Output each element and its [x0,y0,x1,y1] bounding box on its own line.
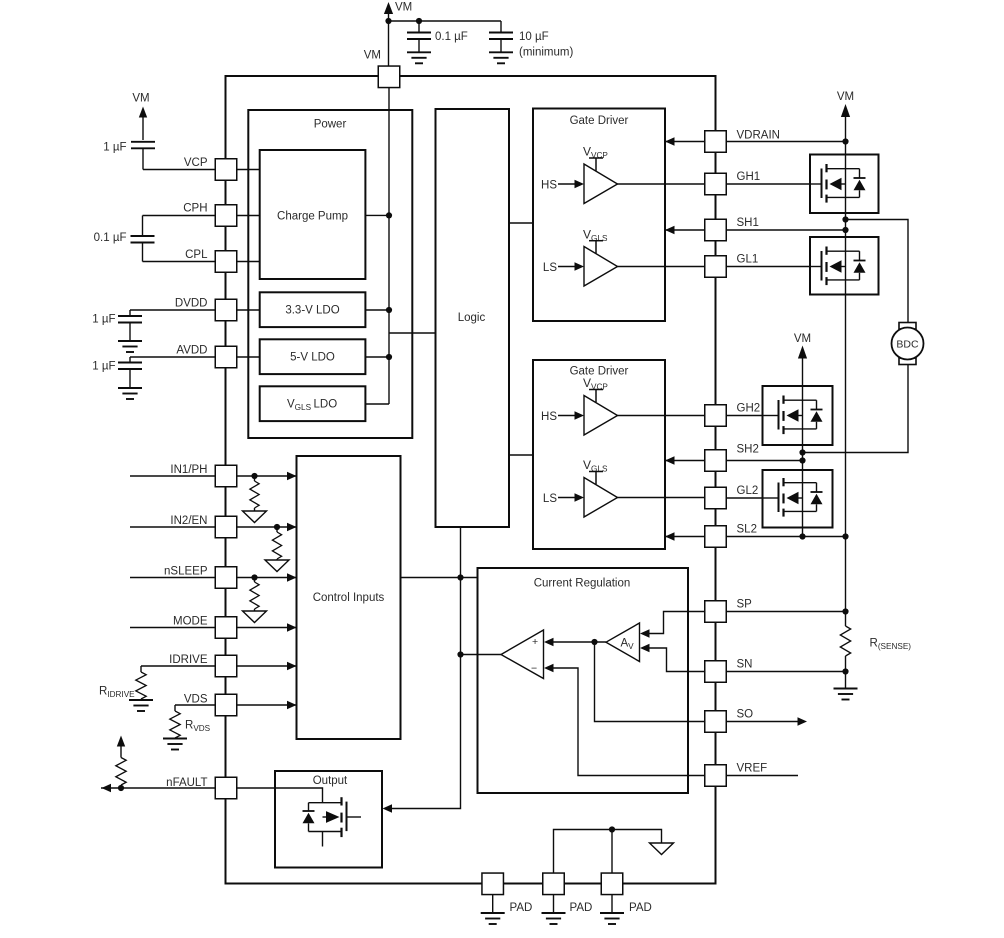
svg-text:Output: Output [313,775,348,787]
pin nFAULT [166,777,237,799]
chip outline (device boundary) [226,76,716,884]
pin PAD 1 [482,873,532,914]
svg-text:IN2/EN: IN2/EN [170,515,207,527]
power net VM (half-bridge 2) [794,333,811,386]
capacitor 1 uF (DVDD) [92,310,142,341]
svg-text:AVDD: AVDD [176,345,207,357]
svg-text:5-V LDO: 5-V LDO [290,352,335,364]
ground (IN2/EN pulldown) [265,560,289,572]
pin AVDD [176,345,236,368]
comparator (current chop) [501,630,544,679]
svg-text:Charge Pump: Charge Pump [277,211,348,223]
svg-text:SH2: SH2 [737,444,759,456]
wire IN2/EN (external) [130,526,215,528]
transistor nFAULT output FET [309,797,362,846]
transistor Q1 (high side 1) [810,155,879,214]
wire VCP to Charge Pump [237,169,260,171]
wire GH2 to FET Q3 gate [726,415,782,417]
wire SP external [726,611,846,613]
wire comparator out [461,654,502,656]
wire IDRIVE (external) [141,665,215,667]
pin SH2 [705,444,759,472]
svg-text:VM: VM [364,50,381,62]
wire SL2 external [726,536,846,538]
junction (VDRAIN tap) [842,138,848,144]
junction (SH2 tap) [799,457,805,463]
pin VREF [705,763,767,787]
pin SN [705,659,753,683]
svg-text:SL2: SL2 [737,524,757,536]
junction (comparator output tap) [457,651,463,657]
svg-text:VREF: VREF [737,763,768,775]
pin SP [705,599,752,623]
svg-text:+: + [532,636,538,648]
block 3.3-V LDO [260,292,366,327]
svg-text:1 µF: 1 µF [103,142,126,154]
svg-text:HS: HS [541,411,557,423]
power net VM (half-bridge 1) [837,91,854,155]
wire to BDC motor [846,220,909,323]
pin IDRIVE [169,654,237,677]
wire VDS (external) [175,704,215,706]
svg-text:CPL: CPL [185,249,208,261]
svg-text:MODE: MODE [173,616,208,628]
svg-text:GH1: GH1 [737,171,761,183]
ground (PAD3) [600,913,624,924]
svg-text:HS: HS [541,180,557,192]
transistor Q3 (high side 2) [763,386,833,445]
wire BDC to SH2 [803,365,909,453]
svg-text:VM: VM [794,333,811,345]
junction (motor tap) [799,449,805,455]
wire RSENSE to ground [845,672,847,689]
wire AV out to comparator + [544,638,606,646]
capacitor 10 uF (minimum) bulk [489,21,573,59]
wire DVDD [130,309,215,311]
pin GL1 [705,254,759,278]
pin VDRAIN [705,129,780,152]
wire top VM rail [389,20,502,22]
junction (5-V LDO to VM bus) [366,354,393,360]
power net VM (VCP cap) [132,93,149,141]
diode (Output FET body) [303,803,315,832]
wire nFAULT inside Output [275,788,323,803]
wire VDRAIN external [726,141,846,143]
wire PAD3 to logic ground [611,830,613,874]
pin SO [705,709,753,733]
svg-text:SO: SO [737,709,754,721]
svg-text:Gate Driver: Gate Driver [570,115,629,127]
wire VCP [143,169,215,171]
pin PAD 2 [543,873,593,914]
svg-text:LS: LS [543,493,557,505]
wire SN external [726,671,846,673]
svg-text:Gate Driver: Gate Driver [570,366,629,378]
svg-text:0.1 µF: 0.1 µF [435,31,468,43]
ground (RSENSE) [834,689,858,700]
svg-text:Current Regulation: Current Regulation [534,578,631,590]
junction (SP tap) [842,608,848,614]
svg-text:SH1: SH1 [737,217,759,229]
wire IDRIVE to Control Inputs [237,662,297,670]
junction (AV output / SO) [591,639,597,645]
junction (3.3-V LDO to VM bus) [366,307,393,313]
resistor RIDRIVE [99,666,146,700]
junction (SL2 row / sense line) [842,533,848,539]
wire nFAULT to Output block [237,787,275,789]
wire IN2/EN to Control Inputs [237,523,297,531]
wire PAD3 ground lead [611,895,613,913]
junction (SN tap) [842,668,848,674]
wire GL2 to FET Q4 gate [726,497,782,499]
svg-text:0.1 µF: 0.1 µF [94,232,127,244]
wire Q4 source to SL2 [802,528,804,537]
block VGLS LDO [260,386,366,421]
wire Q3 source to Q4 drain [802,445,804,470]
junction (SH1 to motor) [842,216,848,222]
op-amp HS driver 2 [541,376,705,435]
junction (Control Inputs tap) [457,574,463,580]
block Current Regulation [478,568,689,793]
wire PAD1 ground lead [492,895,494,913]
capacitor 0.1 uF (VM bypass) [407,21,468,52]
ground (AVDD cap) [118,388,142,399]
wire CPH to Charge Pump [237,215,260,217]
svg-text:1 µF: 1 µF [92,361,115,373]
wire Control Inputs to Current Regulation [401,577,478,579]
wire GL1 to FET Q2 gate [726,266,825,268]
ground (DVDD cap) [118,341,142,352]
svg-text:Control Inputs: Control Inputs [313,592,385,604]
block Logic [436,109,510,527]
resistor pullup (nFAULT) [116,736,126,792]
svg-text:VCP: VCP [184,157,208,169]
resistor RSENSE [840,612,911,672]
svg-text:VDRAIN: VDRAIN [737,129,780,141]
svg-text:IN1/PH: IN1/PH [170,464,207,476]
pin PAD 3 [601,873,652,914]
junction (PAD3 / ground rail) [609,826,615,832]
pin SL2 [705,524,757,548]
resistor RVDS [170,705,211,738]
ground (RIDRIVE) [129,700,153,711]
pin IN1/PH [170,464,236,487]
wire VREF external [726,775,798,777]
wire GH1 to FET Q1 gate [726,183,825,185]
ground (IN1/PH pulldown) [243,511,267,523]
wire PAD2 to logic ground [554,830,662,874]
pin SH1 [705,217,759,241]
transistor Q2 (low side 1) [810,237,879,295]
svg-text:VM: VM [132,93,149,105]
wire IN1/PH (external) [130,475,215,477]
block Gate Driver 2 [533,360,665,549]
ground (logic ground triangle) [650,843,674,855]
pin GL2 [705,485,759,509]
block Power [248,110,412,438]
svg-text:nFAULT: nFAULT [166,777,207,789]
wire SH1 external [726,229,846,231]
svg-text:PAD: PAD [510,902,533,914]
wire CPH [143,215,216,217]
junction (SL2 row / Q4) [799,533,805,539]
ground (PAD2) [542,913,566,924]
svg-text:1 µF: 1 µF [92,314,115,326]
svg-text:−: − [531,663,537,675]
wire Q2 source down to sense [845,295,847,612]
ground (PAD1) [481,913,505,924]
wire DVDD to LDO [237,309,260,311]
op-amp LS driver 2 [543,458,705,517]
svg-text:3.3-V LDO: 3.3-V LDO [285,305,339,317]
svg-text:IDRIVE: IDRIVE [169,654,208,666]
wire SN to AV (-in) [640,644,705,672]
svg-text:nSLEEP: nSLEEP [164,566,208,578]
svg-text:PAD: PAD [629,902,652,914]
svg-text:SP: SP [737,599,753,611]
svg-text:10 µF: 10 µF [519,31,549,43]
pin CPL [185,249,237,272]
svg-text:VDS: VDS [184,694,208,706]
ground (nSLEEP pulldown) [243,611,267,623]
junction (SH1 tap) [842,227,848,233]
svg-text:Power: Power [314,119,347,131]
svg-text:GL2: GL2 [737,485,759,497]
svg-text:LS: LS [543,262,557,274]
junction (VM rail / pin stem) [385,18,391,24]
block 5-V LDO [260,339,366,374]
svg-text:(minimum): (minimum) [519,47,573,59]
capacitor 0.1 uF (flying cap) [94,216,155,262]
resistor pulldown (IN1/PH) [250,473,259,511]
wire VDRAIN to Gate Driver 1 [665,137,705,145]
power net VM (top arrow) [384,2,412,67]
pin VCP [184,157,237,180]
svg-text:Logic: Logic [458,312,486,324]
wire PAD2 ground lead [553,895,555,913]
svg-text:BDC: BDC [896,339,919,351]
wire AVDD [130,356,215,358]
svg-text:CPH: CPH [183,203,207,215]
svg-text:SN: SN [737,659,753,671]
pin VM [364,50,400,88]
wire CPL [143,261,216,263]
pin nSLEEP [164,566,237,589]
block Gate Driver 1 [533,109,665,322]
block Control Inputs [297,456,401,739]
block Output [275,771,382,868]
wire SP to AV (+in) [640,612,705,638]
wire Logic to Gate Driver 2 [509,454,533,456]
pin GH1 [705,171,760,195]
svg-text:VM: VM [395,2,412,14]
wire CPL to Charge Pump [237,261,260,263]
pin MODE [173,616,237,639]
wire MODE to Control Inputs [237,623,297,631]
transistor Q4 (low side 2) [763,470,833,528]
wire MODE (external) [130,627,215,629]
wire VREF to comparator - [544,664,705,776]
wire VM to Logic [389,332,436,334]
wire VM bus (vertical, into Power) [388,88,390,405]
wire SO external [726,717,807,725]
pin DVDD [175,298,237,321]
pin GH2 [705,403,760,427]
block Charge Pump [260,150,366,279]
wire SL2 to Gate Driver 2 [665,532,705,540]
resistor pulldown (IN2/EN) [272,524,281,560]
wire SH1 to Gate Driver 1 [665,226,705,234]
resistor pulldown (nSLEEP) [250,574,259,611]
motor BDC [892,323,924,365]
wire SH2 external [726,460,803,462]
wire VGLS LDO to VM bus [366,403,390,405]
wire nFAULT (external) [101,784,215,792]
wire Logic to Gate Driver 1 [509,222,533,224]
capacitor 1 uF (VCP) [103,142,155,170]
svg-text:DVDD: DVDD [175,298,208,310]
wire SH2 to Gate Driver 2 [665,456,705,464]
junction (VM rail / 0.1uF) [416,18,422,24]
pin VDS [184,694,237,716]
wire VDS to Control Inputs [237,701,297,709]
svg-text:VM: VM [837,91,854,103]
junction (Charge Pump to VM bus) [366,212,393,218]
svg-text:LDO: LDO [314,399,338,411]
ground (RVDS) [163,739,187,750]
wire nSLEEP (external) [130,577,215,579]
wire IN1/PH to Control Inputs [237,472,297,480]
svg-text:GL1: GL1 [737,254,759,266]
op-amp HS driver 1 [541,145,705,204]
pin CPH [183,203,237,227]
pin IN2/EN [170,515,236,538]
ground (10uF) [489,52,513,63]
wire AVDD to LDO [237,356,260,358]
wire Logic to Output (gate) [383,527,461,813]
wire nSLEEP to Control Inputs [237,573,297,581]
ground (0.1uF) [407,52,431,63]
op-amp LS driver 1 [543,227,705,286]
svg-text:PAD: PAD [570,902,593,914]
wire Q1 source to Q2 drain [845,213,847,237]
capacitor 1 uF (AVDD) [92,357,142,388]
op-amp AV sense amplifier [606,623,640,662]
wire AV out to SO [595,642,706,722]
svg-text:GH2: GH2 [737,403,761,415]
